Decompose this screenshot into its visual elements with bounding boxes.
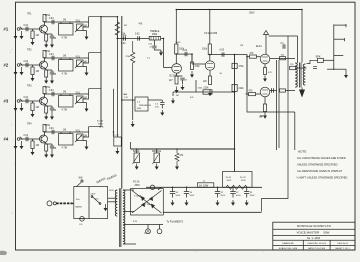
resistor R3a 1M: [31, 103, 34, 111]
svg-text:32+32: 32+32: [240, 177, 247, 179]
ground (R4a): [32, 149, 34, 153]
capacitor C2a: [26, 63, 28, 67]
svg-text:470k: 470k: [239, 66, 245, 68]
wire presence link: [173, 91, 235, 93]
capacitor C11 bypass: [177, 75, 183, 77]
wire collector rail ch3: [45, 93, 89, 95]
svg-text:No. V. 1463: No. V. 1463: [307, 237, 321, 240]
resistor R27 V3 cathode: [264, 64, 266, 68]
wire mains lead: [71, 202, 74, 204]
power transformer T1 secondary: [123, 190, 125, 244]
svg-text:4.7M: 4.7M: [62, 108, 67, 111]
wire supply bus 2: [116, 17, 118, 137]
wire input ch1: [20, 28, 41, 30]
resistor R18 1M: [172, 92, 174, 96]
tube V2 ECC83b: [205, 61, 214, 70]
svg-text:0.02: 0.02: [183, 50, 188, 52]
svg-text:DRAWN RF: DRAWN RF: [282, 242, 294, 245]
svg-text:BY 100: BY 100: [143, 204, 151, 206]
ground (decoupling): [116, 148, 118, 152]
resistor R12 grid 470k: [191, 54, 193, 62]
svg-text:1M: 1M: [176, 95, 179, 97]
resistor R1c collector load 470k: [44, 22, 46, 26]
resistor R2c collector load 470k: [44, 58, 46, 62]
ground (C24): [186, 200, 188, 203]
resistor R28 screen stopper: [280, 89, 286, 92]
transistor TR3: [40, 97, 48, 105]
jack J2: [17, 64, 20, 67]
resistor R15 box: [232, 63, 237, 68]
capacitor C4a: [26, 137, 28, 141]
svg-text:500V: 500V: [190, 195, 195, 197]
resistor R4b emitter: [45, 142, 46, 144]
svg-text:TR4: TR4: [27, 123, 32, 126]
svg-text:DRG No B: DRG No B: [337, 243, 348, 245]
power transformer T1 primary: [115, 190, 117, 216]
capacitor C1a: [26, 27, 28, 31]
svg-text:V 400B: V 400B: [134, 196, 142, 198]
warning triangle: [264, 31, 269, 35]
svg-text:500V: 500V: [176, 42, 182, 44]
resistor network box R1d 4.7M: [59, 24, 74, 36]
resistor R19 feedback: [175, 149, 179, 163]
volume pot VR3: [77, 96, 84, 103]
capacitor C21: [272, 88, 274, 92]
ground (VR1): [86, 31, 88, 34]
capacitor C4c coupling 0.04: [52, 130, 54, 134]
wire input ch2: [20, 64, 41, 66]
note annotation: [297, 150, 348, 180]
volume pot VR1: [77, 24, 84, 31]
wire V1 anode feed: [175, 10, 177, 45]
svg-text:VOICE MASTER 50W: VOICE MASTER 50W: [296, 231, 329, 235]
svg-text:VOL: VOL: [76, 21, 81, 23]
wire box to transformer: [108, 197, 116, 199]
resistor R1a 1M: [31, 31, 34, 39]
capacitor C14 0.02: [124, 36, 126, 40]
capacitor C25: [217, 187, 219, 191]
resistor R1b emitter: [45, 32, 46, 34]
voltage selector VS1: [92, 197, 100, 204]
wire V1 grid: [163, 38, 165, 67]
ground (jack frame ch3): [21, 103, 23, 108]
wire V2 grid: [191, 54, 193, 64]
wire ch4 output: [83, 127, 101, 137]
capacitor C3b bypass: [46, 105, 52, 107]
svg-text:1M: 1M: [36, 144, 39, 147]
capacitor C20: [283, 44, 285, 48]
svg-text:To FILAMENTS: To FILAMENTS: [167, 221, 184, 224]
svg-text:350V: 350V: [227, 180, 232, 182]
capacitor C16: [152, 46, 156, 48]
capacitor C24: [186, 187, 188, 191]
resistor R11 cathode: [176, 73, 178, 76]
label cluster psu: [109, 190, 255, 235]
ground (jack frame ch4): [21, 141, 23, 146]
capacitor C3c coupling 0.04: [52, 92, 54, 96]
wire rail end: [261, 186, 263, 188]
svg-text:0.04: 0.04: [24, 61, 29, 63]
svg-text:0.02: 0.02: [121, 43, 126, 45]
svg-text:240V: 240V: [91, 194, 96, 196]
svg-text:4.7M: 4.7M: [62, 146, 67, 149]
svg-text:450V: 450V: [236, 195, 241, 197]
wire PI feed: [235, 55, 295, 112]
tube V3 EL34 upper: [260, 54, 270, 64]
svg-text:DATE 21.10.1963: DATE 21.10.1963: [308, 247, 326, 250]
resistor network box R3d 4.7M: [59, 96, 74, 108]
ground (R3b): [45, 113, 47, 117]
resistor R14 cathode: [209, 70, 211, 76]
resistor R2a 1M: [31, 67, 34, 75]
ground (C11): [182, 85, 184, 88]
wire filaments: [140, 224, 163, 226]
svg-text:V2 ECC83: V2 ECC83: [204, 31, 218, 35]
svg-text:NOTE: NOTE: [298, 150, 306, 154]
ground (R23): [264, 112, 266, 116]
tube V4 EL34 lower: [260, 87, 270, 97]
svg-text:MAINS: MAINS: [76, 206, 83, 209]
wire collector rail ch1: [45, 21, 89, 23]
svg-text:TR2: TR2: [27, 49, 32, 52]
svg-text:450V: 450V: [250, 195, 255, 197]
lamp L2: [159, 225, 161, 230]
junction dots: [117, 16, 119, 18]
ground (jack frame ch1): [21, 31, 23, 36]
svg-text:0.04: 0.04: [24, 135, 29, 137]
svg-text:½ WATT UNLESS OTHERWISE SPECIF: ½ WATT UNLESS OTHERWISE SPECIFIED: [297, 176, 348, 180]
wire triangle row: [269, 35, 298, 37]
wire rectifier out: [158, 187, 161, 190]
volume pot VR4: [77, 134, 84, 141]
wire mixing bus vertical: [100, 17, 102, 127]
svg-text:6.3V: 6.3V: [133, 221, 138, 223]
pilot lamp PL1: [147, 225, 149, 230]
ground (C25): [217, 200, 219, 203]
wire bass drop: [130, 142, 132, 149]
resistor R23 bias: [263, 104, 266, 112]
ground (R2a): [32, 75, 34, 79]
rectifier box: [131, 189, 164, 216]
svg-text:0.04: 0.04: [24, 25, 29, 27]
ground (VR2): [86, 67, 88, 70]
svg-text:1M: 1M: [63, 129, 66, 131]
ground (R19): [176, 164, 178, 167]
svg-text:250V: 250V: [135, 185, 141, 187]
resistor network box R4d 4.7M: [59, 134, 74, 146]
wire V3 grid: [247, 56, 250, 58]
transistor TR1: [40, 25, 48, 33]
resistor R24 feedback: [290, 66, 296, 69]
ground (jack sleeve ch3): [15, 103, 17, 108]
title block: [273, 222, 355, 250]
capacitor C1c coupling 0.04: [52, 20, 54, 24]
svg-text:#4: #4: [4, 137, 9, 142]
wire tap ground: [327, 68, 339, 70]
fuse FS1: [150, 185, 154, 189]
wire collector rail ch2: [45, 57, 89, 59]
svg-text:ALL CAPACITANCE VALUES ARE IN: ALL CAPACITANCE VALUES ARE IN MFD: [297, 156, 346, 160]
wire tone row: [117, 37, 150, 39]
svg-text:450V: 450V: [221, 195, 226, 197]
capacitor C15 0.02: [138, 36, 140, 40]
wire V4 to OT: [286, 90, 296, 92]
svg-text:1M: 1M: [36, 106, 39, 109]
svg-text:350V: 350V: [249, 12, 255, 15]
wire triangle to V3: [265, 35, 267, 55]
capacitor C17 coupling: [176, 53, 192, 55]
wire input ch4: [20, 138, 41, 140]
wire screen pair: [276, 60, 278, 150]
ground (jack sleeve ch4): [15, 141, 17, 146]
resistor R4c collector load 470k: [44, 132, 46, 136]
ground (R4b): [45, 151, 47, 155]
ground (R3a): [32, 111, 34, 115]
svg-text:VOL: VOL: [76, 131, 81, 133]
svg-text:1K 10W: 1K 10W: [199, 183, 209, 187]
svg-text:PRESENCE: PRESENCE: [139, 105, 152, 107]
capacitor C2c coupling 0.04: [52, 56, 54, 60]
svg-text:0.04: 0.04: [24, 97, 29, 99]
ground (VR4): [86, 141, 88, 144]
resistor R16 box: [232, 84, 237, 91]
svg-text:1M: 1M: [240, 45, 243, 47]
ground (jack sleeve ch1): [15, 31, 17, 36]
output transformer T2: [295, 63, 297, 87]
fuse FS2: [80, 217, 85, 222]
ground (C19): [161, 110, 163, 113]
speaker jack box: [318, 58, 324, 62]
wire HT secondary taps: [124, 189, 135, 191]
svg-text:#1: #1: [4, 27, 9, 32]
wire V3 anode: [270, 58, 295, 60]
capacitor C4b bypass: [46, 143, 52, 145]
svg-text:500V: 500V: [176, 195, 181, 197]
resistor R3c collector load 470k: [44, 94, 46, 98]
svg-text:1M: 1M: [36, 70, 39, 73]
volume pot VR2: [77, 60, 84, 67]
capacitor C1b bypass: [46, 33, 52, 35]
ground (C1b): [51, 38, 53, 45]
ground (jack frame ch2): [21, 67, 23, 72]
ground (VR7): [156, 164, 158, 167]
wire PI bus: [234, 55, 236, 172]
svg-text:1M: 1M: [63, 19, 66, 21]
capacitor C18 coupling: [210, 54, 235, 56]
wire HT supply rail: [146, 186, 262, 188]
jack J3: [17, 100, 20, 103]
wire OT primary top: [297, 36, 299, 63]
output tap 16 ohm: [334, 24, 346, 26]
tube V1 ECC83a: [172, 64, 182, 74]
rectifier MR1 bridge: [132, 191, 162, 214]
svg-text:1M: 1M: [63, 91, 66, 93]
ground (jack sleeve ch2): [15, 67, 17, 72]
wire V4 anode: [270, 90, 277, 92]
ground (R27): [264, 76, 266, 79]
ground (C16): [154, 49, 161, 51]
wire bus to mix resistor: [101, 16, 117, 18]
svg-text:EL34: EL34: [256, 45, 262, 48]
svg-text:CHECKED 10.9.63: CHECKED 10.9.63: [307, 243, 326, 245]
svg-text:RONVILLE SOUND LTD: RONVILLE SOUND LTD: [297, 224, 332, 228]
svg-text:470k: 470k: [45, 124, 51, 127]
svg-text:240V: 240V: [109, 190, 114, 192]
wire ch3 output: [83, 89, 101, 99]
resistor R3b emitter: [45, 104, 46, 106]
svg-text:32+32: 32+32: [97, 121, 104, 123]
ground (C2b): [51, 74, 53, 81]
ground (OT frame): [301, 88, 303, 90]
wire ch1 output: [83, 17, 101, 27]
capacitor C3a: [26, 99, 28, 103]
svg-text:VOL: VOL: [76, 57, 81, 59]
svg-text:470k: 470k: [45, 86, 51, 89]
ground (R1b): [45, 41, 47, 45]
ground (VR3): [86, 103, 88, 106]
svg-text:VOL: VOL: [76, 93, 81, 95]
mains plug: [47, 201, 52, 206]
ground (R14): [209, 89, 211, 93]
scan artifact bottom left: [0, 251, 7, 255]
ground (R1a): [32, 39, 34, 43]
svg-text:TR3: TR3: [27, 85, 32, 88]
wire B+ distribution bus: [121, 16, 123, 189]
svg-text:UNLESS OTHERWISE SPECIFIED: UNLESS OTHERWISE SPECIFIED: [297, 163, 338, 167]
wire PI to V4 grid: [246, 55, 248, 94]
svg-text:0.04: 0.04: [49, 54, 54, 56]
capacitor C26: [232, 187, 234, 191]
resistor R9 mix zigzag: [115, 20, 119, 38]
svg-text:0.04: 0.04: [49, 128, 54, 130]
resistor R22 grid stopper: [249, 93, 256, 96]
svg-text:OP: OP: [260, 116, 264, 118]
svg-text:FS 2A: FS 2A: [133, 181, 140, 184]
label cluster preamp: [123, 25, 243, 107]
svg-text:1M: 1M: [63, 55, 66, 57]
wire input ch3: [20, 100, 41, 102]
svg-text:0.04: 0.04: [49, 90, 54, 92]
ground (C27): [246, 200, 248, 203]
ground (output): [345, 70, 347, 76]
ground (VR8): [132, 100, 134, 120]
svg-text:1M: 1M: [36, 34, 39, 37]
svg-text:0.02: 0.02: [135, 34, 140, 36]
wire secondary to jack: [307, 60, 318, 63]
wire collector rail ch4: [45, 131, 89, 133]
svg-text:100k: 100k: [202, 49, 208, 51]
svg-text:350V: 350V: [241, 180, 246, 182]
wire presence row: [122, 99, 135, 101]
svg-text:#3: #3: [4, 99, 9, 104]
capacitor C22: [313, 66, 317, 68]
svg-text:SPK: SPK: [316, 55, 321, 58]
svg-text:SCALE FULL SIZE: SCALE FULL SIZE: [279, 247, 298, 250]
svg-text:0.04: 0.04: [49, 18, 54, 20]
resistor R21 grid stopper: [250, 55, 257, 58]
wire treble wiper: [153, 40, 155, 46]
resistor R25 dropper zigzag: [226, 185, 247, 189]
capacitor C27: [246, 187, 248, 191]
resistor R4a 1M: [31, 141, 34, 149]
svg-text:220k: 220k: [239, 88, 245, 90]
capacitor C19: [148, 99, 162, 101]
capacitor C2b bypass: [46, 69, 52, 71]
wire feedback loop: [262, 36, 289, 212]
wire output taps bus: [333, 24, 335, 70]
wire OT HT feed: [301, 10, 303, 63]
jack J1: [17, 28, 20, 31]
svg-text:470k: 470k: [45, 14, 51, 17]
resistor R13 anode: [208, 44, 211, 55]
resistor R26 screen stopper: [280, 57, 286, 60]
ground (R11): [176, 87, 178, 91]
capacitor C23 reservoir: [172, 187, 174, 191]
pot VR8 presence box: [135, 97, 148, 111]
resistor R10 anode 100k: [175, 44, 178, 54]
svg-text:#2: #2: [4, 63, 9, 68]
wire grid drop: [161, 37, 164, 39]
wire R20 drop: [195, 80, 197, 92]
output tap 4 ohm: [334, 55, 344, 57]
svg-text:350V: 350V: [98, 124, 104, 126]
transistor TR4: [40, 135, 48, 143]
choke L1: [198, 183, 214, 188]
ground (C23): [172, 200, 174, 203]
svg-text:32+32: 32+32: [226, 177, 233, 179]
ground (VR6): [136, 164, 138, 167]
resistor R20 220k: [203, 90, 212, 94]
power transformer T1 core: [120, 188, 121, 247]
output tap 8 ohm: [334, 38, 345, 40]
wire HT rail: [176, 9, 302, 11]
ground (R2b): [45, 77, 47, 81]
wire bass row: [131, 148, 235, 150]
svg-text:220k: 220k: [204, 88, 210, 90]
svg-text:250k: 250k: [152, 33, 158, 36]
decoupling node box: [114, 137, 122, 146]
svg-text:TR1: TR1: [27, 13, 32, 16]
svg-text:SHEET 1 OF 1: SHEET 1 OF 1: [335, 248, 350, 250]
ground (selector): [105, 204, 107, 208]
svg-text:4.7M: 4.7M: [62, 36, 67, 39]
wire ground bus: [163, 211, 261, 213]
ground (C26): [232, 200, 234, 203]
jack J4: [17, 138, 20, 141]
transistor TR2: [40, 61, 48, 69]
ground (C3b): [51, 110, 53, 117]
svg-text:470k: 470k: [195, 66, 201, 68]
svg-text:470k: 470k: [45, 50, 51, 53]
ground (R12): [191, 71, 193, 75]
svg-text:0.05: 0.05: [220, 50, 225, 52]
svg-text:NFB: NFB: [99, 127, 104, 129]
ground (C4b): [51, 148, 53, 155]
svg-text:25V: 25V: [155, 107, 159, 109]
svg-text:4.7M: 4.7M: [62, 72, 67, 75]
screen dropper box: [223, 172, 253, 188]
resistor network box R2d 4.7M: [59, 60, 74, 72]
resistor R10a zigzag: [131, 41, 135, 102]
wire ch2 collect: [113, 89, 115, 137]
svg-text:ALL RESISTANCE GIVEN IN OHMS A: ALL RESISTANCE GIVEN IN OHMS AT: [297, 169, 343, 173]
mains selector box: [74, 187, 108, 219]
wire ch2 output: [83, 53, 101, 63]
resistor R2b emitter: [45, 68, 46, 70]
